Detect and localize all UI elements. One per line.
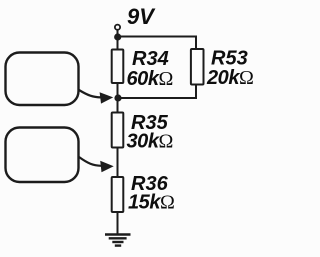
- svg-text:9V: 9V: [127, 4, 156, 29]
- svg-text:20kΩ: 20kΩ: [206, 67, 254, 89]
- svg-text:15kΩ: 15kΩ: [128, 192, 175, 214]
- svg-text:30kΩ: 30kΩ: [127, 131, 174, 153]
- svg-text:60kΩ: 60kΩ: [127, 68, 174, 90]
- svg-text:R34: R34: [132, 48, 169, 70]
